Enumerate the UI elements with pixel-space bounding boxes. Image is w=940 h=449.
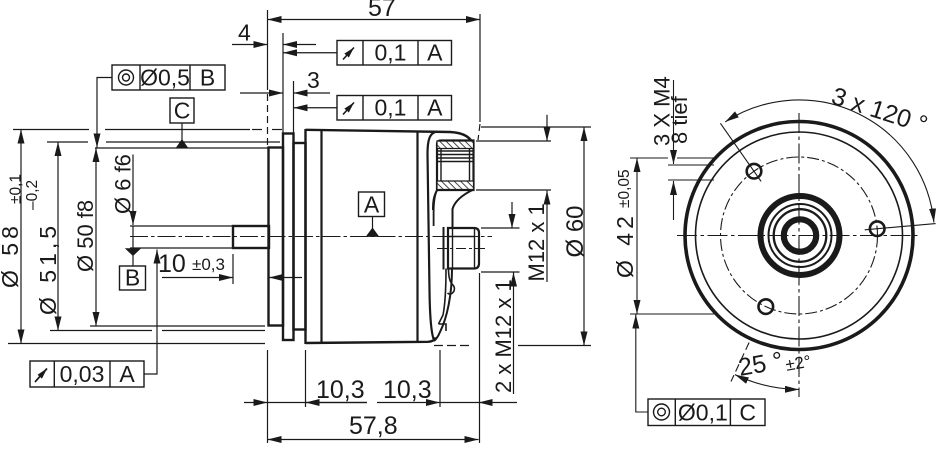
svg-text:10,3: 10,3: [383, 376, 432, 404]
svg-text:C: C: [739, 400, 756, 426]
svg-text:C: C: [174, 98, 191, 124]
svg-text:Ø0,1: Ø0,1: [678, 400, 728, 426]
svg-text:±0,05: ±0,05: [616, 169, 633, 208]
svg-text:Ø0,5: Ø0,5: [140, 65, 190, 91]
svg-text:A: A: [427, 95, 443, 121]
svg-text:±0,3: ±0,3: [192, 255, 225, 274]
svg-text:M12 x 1: M12 x 1: [524, 203, 549, 281]
svg-text:3: 3: [307, 67, 320, 93]
svg-text:10,3: 10,3: [316, 376, 365, 404]
svg-text:0,1: 0,1: [375, 40, 407, 66]
svg-text:–0,2: –0,2: [24, 180, 41, 210]
svg-text:±0,1: ±0,1: [8, 174, 25, 204]
svg-text:4: 4: [238, 20, 251, 46]
svg-text:0,03: 0,03: [60, 361, 105, 387]
svg-text:0,1: 0,1: [375, 95, 407, 121]
svg-text:A: A: [364, 192, 380, 218]
svg-text:Ø 6 f6: Ø 6 f6: [111, 154, 136, 214]
svg-text:A: A: [427, 40, 443, 66]
svg-text:Ø 58: Ø 58: [0, 222, 23, 288]
svg-text:8 tief: 8 tief: [667, 95, 692, 144]
svg-text:57,8: 57,8: [349, 412, 398, 440]
svg-text:57: 57: [368, 0, 396, 22]
svg-text:B: B: [200, 65, 215, 91]
svg-text:A: A: [119, 361, 135, 387]
svg-text:Ø 51,5: Ø 51,5: [35, 222, 61, 315]
svg-text:B: B: [125, 265, 140, 291]
svg-text:Ø 50 f8: Ø 50 f8: [73, 200, 98, 272]
svg-text:10: 10: [158, 250, 186, 278]
svg-text:Ø 42: Ø 42: [612, 212, 638, 278]
svg-text:Ø 60: Ø 60: [562, 205, 589, 257]
svg-text:2 x M12 x 1: 2 x M12 x 1: [491, 279, 516, 393]
